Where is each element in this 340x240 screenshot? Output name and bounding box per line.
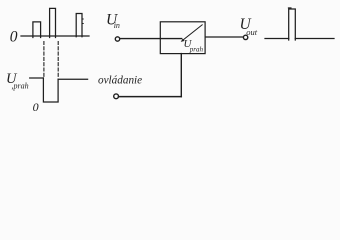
wire control vertical to switch block	[180, 54, 182, 97]
wire switch to output	[205, 36, 243, 38]
svg-text:0: 0	[33, 100, 39, 114]
input pulse 2 (tall)	[50, 8, 56, 37]
dashed construction line left	[43, 42, 45, 78]
wire input to switch	[120, 38, 182, 40]
svg-text:prah: prah	[189, 46, 204, 54]
svg-text:0: 0	[10, 29, 18, 46]
dashed construction line right	[57, 42, 59, 77]
control terminal	[114, 94, 119, 99]
output terminal	[243, 35, 247, 39]
switch arrowhead	[181, 39, 185, 42]
input terminal	[115, 37, 119, 41]
threshold waveform negative pulse	[43, 78, 58, 102]
output pulse	[289, 9, 296, 40]
input pulse 3 edge marks	[82, 19, 83, 24]
svg-text:,prah: ,prah	[12, 81, 29, 90]
wire threshold level left segment	[30, 77, 44, 79]
switch block U1	[160, 22, 205, 54]
input pulse 1	[33, 22, 41, 38]
svg-text:ovládanie: ovládanie	[98, 75, 142, 87]
wire input waveform baseline	[21, 35, 89, 37]
wire output waveform baseline right	[295, 38, 334, 40]
output pulse top-left overshoot mark	[288, 7, 291, 9]
wire threshold level right segment	[58, 78, 88, 80]
wire control horizontal	[119, 96, 182, 98]
input pulse 3	[76, 14, 82, 37]
svg-text:in: in	[114, 21, 120, 30]
svg-text:out: out	[246, 27, 257, 37]
wire output waveform baseline left	[265, 38, 289, 40]
switch arm	[183, 25, 202, 40]
